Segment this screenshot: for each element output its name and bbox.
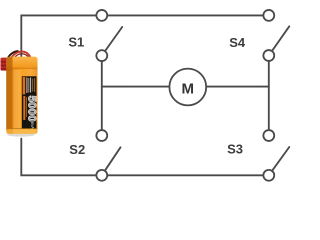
- svg-text:S2: S2: [69, 142, 85, 157]
- svg-text:S1: S1: [68, 35, 84, 50]
- svg-text:M: M: [182, 81, 195, 98]
- svg-text:5000: 5000: [26, 96, 38, 122]
- svg-text:S4: S4: [229, 35, 246, 50]
- svg-text:S3: S3: [227, 142, 243, 157]
